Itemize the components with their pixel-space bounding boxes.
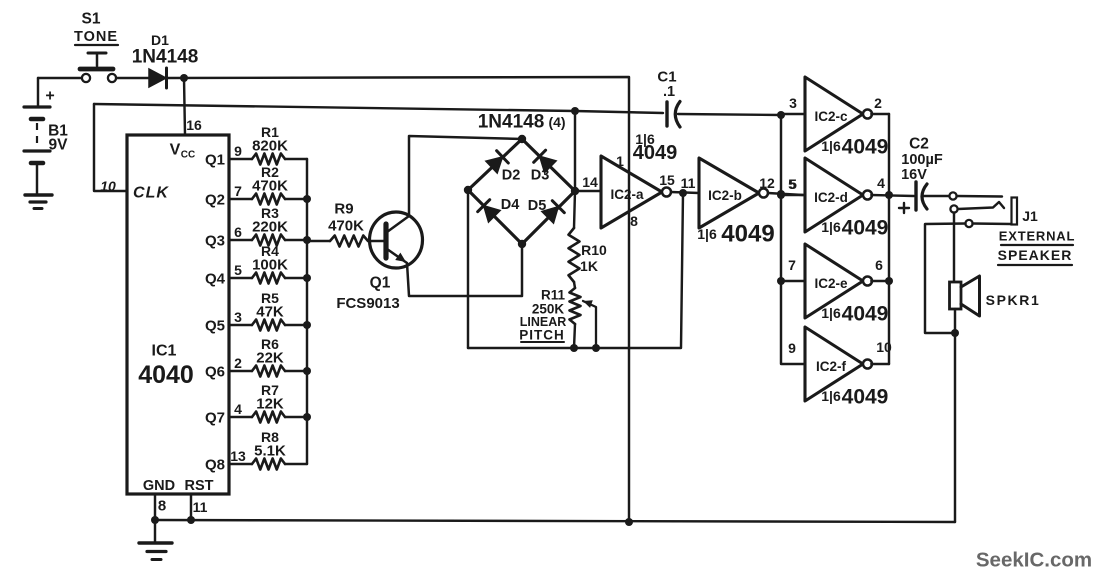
svg-text:(4): (4) [548, 114, 565, 130]
svg-text:IC2-e: IC2-e [814, 276, 848, 291]
svg-text:12: 12 [759, 175, 775, 191]
svg-text:1|6: 1|6 [821, 138, 841, 154]
svg-text:820K: 820K [252, 138, 288, 155]
svg-text:9: 9 [234, 143, 242, 159]
svg-text:+: + [45, 88, 54, 105]
svg-text:1|6: 1|6 [821, 219, 841, 235]
svg-text:4049: 4049 [842, 136, 889, 159]
svg-text:Q6: Q6 [205, 364, 225, 381]
svg-text:EXTERNAL: EXTERNAL [999, 229, 1075, 244]
svg-text:CC: CC [181, 150, 195, 161]
svg-text:7: 7 [234, 183, 242, 199]
svg-text:IC2-d: IC2-d [814, 190, 848, 205]
svg-text:C2: C2 [909, 136, 929, 153]
svg-text:1: 1 [616, 153, 624, 169]
svg-text:4: 4 [234, 401, 242, 417]
svg-text:TONE: TONE [74, 29, 118, 45]
svg-text:6: 6 [875, 257, 883, 273]
svg-text:Q5: Q5 [205, 318, 225, 335]
svg-text:100K: 100K [252, 257, 288, 274]
svg-text:1|6: 1|6 [821, 305, 841, 321]
svg-text:4049: 4049 [721, 221, 774, 248]
svg-text:4049: 4049 [842, 303, 889, 326]
svg-text:8: 8 [158, 498, 166, 515]
svg-text:D3: D3 [531, 168, 550, 184]
svg-text:1N4148: 1N4148 [132, 47, 199, 68]
svg-text:Q2: Q2 [205, 192, 225, 209]
svg-text:Q4: Q4 [205, 271, 226, 288]
svg-text:9V: 9V [49, 137, 69, 154]
svg-text:PITCH: PITCH [519, 328, 565, 343]
svg-text:7: 7 [788, 257, 796, 273]
svg-text:8: 8 [630, 213, 638, 229]
svg-text:D4: D4 [501, 197, 520, 213]
svg-text:1N4148: 1N4148 [478, 112, 545, 133]
svg-text:15: 15 [659, 172, 675, 188]
svg-text:3: 3 [789, 95, 797, 111]
svg-text:Q3: Q3 [205, 233, 225, 250]
svg-text:3: 3 [234, 309, 242, 325]
svg-text:R10: R10 [581, 242, 607, 258]
svg-text:1K: 1K [580, 258, 598, 274]
svg-text:GND: GND [143, 478, 175, 494]
svg-text:4040: 4040 [138, 361, 194, 389]
svg-text:5: 5 [234, 262, 242, 278]
svg-text:SPKR1: SPKR1 [986, 292, 1041, 308]
svg-text:5: 5 [788, 176, 796, 192]
svg-text:IC2-a: IC2-a [610, 187, 644, 202]
svg-text:4049: 4049 [633, 142, 678, 164]
svg-text:11: 11 [681, 175, 696, 191]
svg-text:Q8: Q8 [205, 457, 225, 474]
svg-text:R11: R11 [541, 288, 566, 303]
svg-text:SPEAKER: SPEAKER [998, 247, 1073, 263]
svg-text:220K: 220K [252, 219, 288, 236]
svg-text:2: 2 [234, 355, 242, 371]
svg-text:SeekIC.com: SeekIC.com [976, 549, 1092, 572]
svg-text:10: 10 [876, 339, 892, 355]
svg-text:9: 9 [788, 340, 796, 356]
svg-text:CLK: CLK [133, 185, 169, 202]
svg-text:FCS9013: FCS9013 [336, 295, 399, 312]
svg-text:5.1K: 5.1K [254, 443, 286, 460]
svg-text:13: 13 [230, 448, 246, 464]
svg-text:470K: 470K [252, 178, 288, 195]
svg-text:12K: 12K [256, 396, 284, 413]
svg-text:11: 11 [193, 499, 208, 515]
svg-text:2: 2 [874, 95, 882, 111]
svg-text:1|6: 1|6 [697, 226, 717, 242]
svg-text:4049: 4049 [842, 217, 889, 240]
svg-text:V: V [170, 142, 181, 159]
svg-text:1|6: 1|6 [821, 388, 841, 404]
svg-text:470K: 470K [328, 218, 364, 235]
svg-text:14: 14 [582, 174, 598, 190]
svg-text:D2: D2 [502, 168, 521, 184]
svg-text:RST: RST [185, 478, 214, 494]
svg-text:C1: C1 [657, 69, 676, 86]
svg-text:22K: 22K [256, 350, 284, 367]
svg-text:S1: S1 [82, 11, 101, 28]
svg-text:IC2-c: IC2-c [814, 109, 848, 124]
svg-text:4: 4 [877, 175, 885, 191]
svg-text:16: 16 [186, 117, 202, 133]
svg-text:100µF: 100µF [901, 152, 943, 168]
svg-text:IC2-f: IC2-f [816, 359, 847, 374]
svg-text:D5: D5 [528, 198, 547, 214]
svg-text:Q1: Q1 [370, 275, 391, 292]
svg-text:IC2-b: IC2-b [708, 188, 742, 203]
svg-text:47K: 47K [256, 304, 284, 321]
svg-text:6: 6 [234, 224, 242, 240]
svg-text:J1: J1 [1022, 208, 1038, 224]
svg-text:4049: 4049 [842, 386, 889, 409]
svg-text:Q7: Q7 [205, 410, 225, 427]
svg-text:16V: 16V [901, 167, 927, 183]
svg-text:IC1: IC1 [152, 343, 177, 360]
svg-text:R9: R9 [334, 201, 353, 218]
svg-text:Q1: Q1 [205, 152, 225, 169]
svg-text:.1: .1 [663, 84, 675, 100]
